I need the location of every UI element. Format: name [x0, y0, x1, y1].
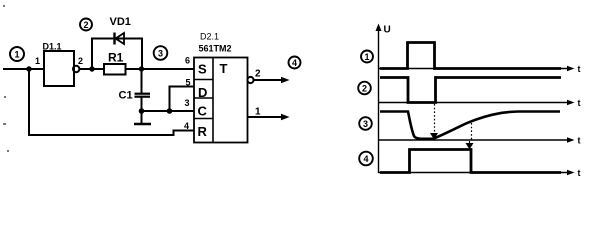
resistor R1: [104, 50, 126, 74]
svg-text:5: 5: [186, 78, 191, 88]
svg-text:4: 4: [292, 58, 297, 68]
junction E: [167, 108, 173, 114]
junction B: [89, 66, 94, 71]
wire C1 to C pin: [142, 110, 195, 112]
node 3: [154, 46, 168, 60]
wire D1.1 output to S pin: [80, 68, 194, 70]
svg-text:1: 1: [35, 56, 40, 66]
wire diode branch: [92, 39, 142, 70]
dotted line t1: [434, 104, 436, 132]
capacitor C1: [119, 69, 151, 124]
label 2: [358, 82, 371, 95]
svg-text:D: D: [198, 85, 207, 100]
svg-text:VD1: VD1: [110, 16, 131, 28]
svg-text:2: 2: [255, 69, 261, 80]
label 3: [359, 117, 372, 130]
waveform 3 exponential: [380, 112, 560, 139]
flip-flop U D2.1 561TM2: [194, 32, 248, 143]
wire input to D1.1: [3, 68, 44, 70]
node 1: [10, 47, 24, 61]
ground: [134, 123, 151, 125]
waveform 2: [380, 78, 561, 103]
svg-text:4: 4: [363, 154, 368, 164]
node 2: [80, 19, 92, 31]
svg-text:C: C: [198, 104, 208, 119]
svg-text:1: 1: [255, 107, 261, 118]
waveform 1: [380, 43, 561, 69]
arrow marker on curve bottom: [430, 133, 438, 140]
svg-text:R: R: [198, 124, 208, 139]
svg-text:D2.1: D2.1: [200, 32, 219, 42]
label 4: [359, 152, 373, 166]
junction C: [139, 66, 144, 71]
svg-text:t: t: [578, 168, 581, 178]
svg-text:3: 3: [363, 119, 368, 129]
diode VD1: [110, 16, 131, 45]
svg-text:1: 1: [14, 50, 19, 60]
svg-text:R1: R1: [108, 50, 124, 64]
svg-text:2: 2: [78, 56, 83, 66]
svg-text:4: 4: [184, 121, 189, 131]
svg-text:6: 6: [185, 56, 190, 66]
svg-text:t: t: [578, 98, 581, 108]
svg-text:2: 2: [362, 84, 367, 94]
node 4: [289, 57, 301, 69]
svg-text:3: 3: [185, 98, 190, 108]
wire bottom rail to R pin: [29, 69, 194, 135]
dotted line t2: [471, 123, 473, 141]
axis t row 3: [379, 136, 581, 146]
U axis: [376, 24, 391, 174]
scan specks: [3, 5, 9, 152]
svg-text:U: U: [384, 25, 391, 36]
axis t row 4: [379, 168, 581, 178]
svg-text:t: t: [578, 64, 581, 74]
svg-text:2: 2: [83, 20, 88, 30]
label 1: [361, 51, 373, 63]
wire output 2 with arrow: [254, 69, 290, 84]
wire output 1 with arrow: [248, 107, 290, 121]
inverter D1.1: [35, 42, 83, 87]
output bubble pin 2: [247, 77, 253, 83]
svg-text:t: t: [578, 136, 581, 146]
axis t row 2: [379, 98, 581, 108]
waveform 4: [380, 150, 561, 173]
arrow marker on pulse 4: [466, 141, 474, 150]
svg-text:C1: C1: [119, 90, 133, 102]
svg-text:561TM2: 561TM2: [199, 44, 232, 54]
svg-text:1: 1: [364, 52, 369, 62]
junction A: [26, 66, 31, 71]
svg-text:T: T: [220, 61, 228, 76]
svg-text:D1.1: D1.1: [43, 42, 62, 52]
svg-text:S: S: [198, 62, 207, 77]
wire to D pin: [170, 87, 195, 112]
axis t row 1: [379, 64, 581, 74]
junction D below C1: [139, 108, 145, 114]
svg-text:3: 3: [158, 49, 163, 59]
